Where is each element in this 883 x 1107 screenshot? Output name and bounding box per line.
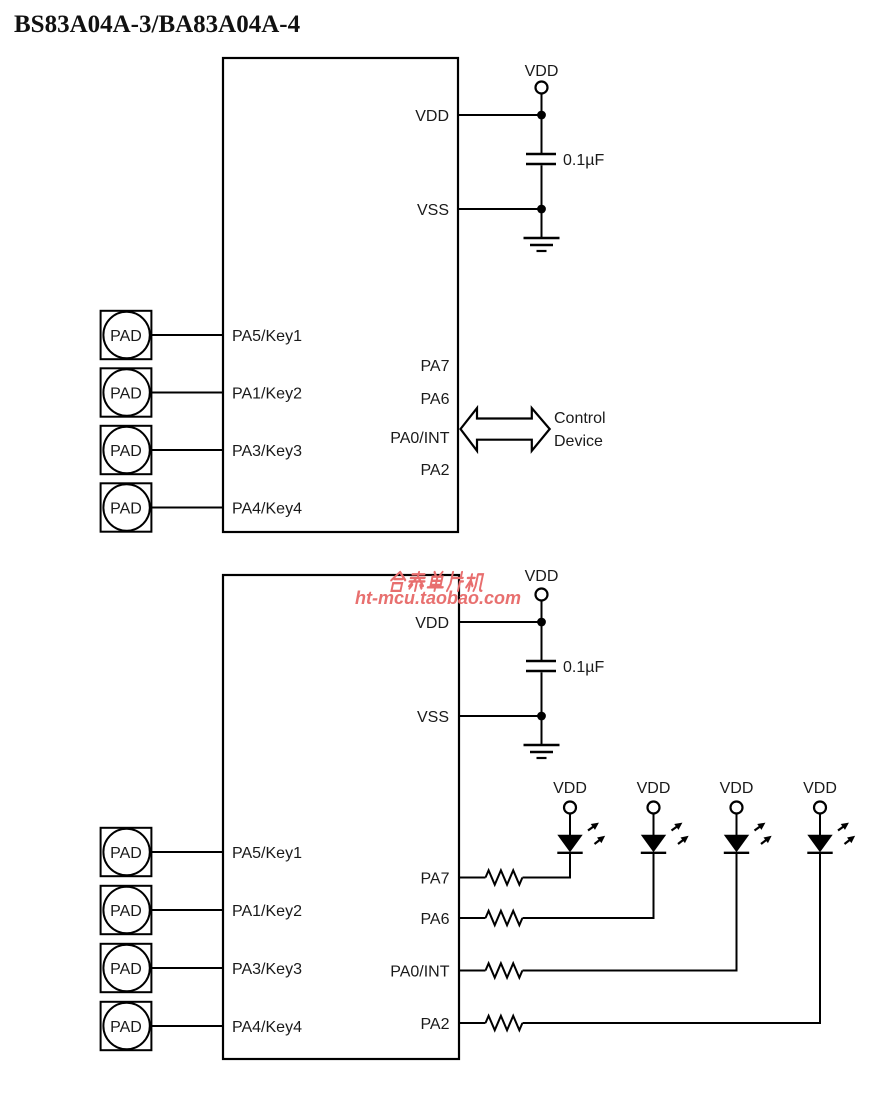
svg-text:PA5/Key1: PA5/Key1 xyxy=(232,845,302,862)
svg-text:VDD: VDD xyxy=(415,615,449,632)
svg-text:PAD: PAD xyxy=(110,961,142,978)
svg-text:PA3/Key3: PA3/Key3 xyxy=(232,443,302,460)
svg-text:PA2: PA2 xyxy=(420,1016,449,1033)
svg-text:PA7: PA7 xyxy=(420,870,449,887)
svg-text:VDD: VDD xyxy=(525,63,559,80)
svg-text:0.1µF: 0.1µF xyxy=(563,659,604,676)
svg-text:VDD: VDD xyxy=(803,780,837,797)
svg-text:PAD: PAD xyxy=(110,1019,142,1036)
svg-text:PA4/Key4: PA4/Key4 xyxy=(232,500,302,517)
svg-text:VDD: VDD xyxy=(553,780,587,797)
svg-text:VDD: VDD xyxy=(720,780,754,797)
svg-text:PA3/Key3: PA3/Key3 xyxy=(232,961,302,978)
svg-text:PA7: PA7 xyxy=(420,358,449,375)
svg-text:VDD: VDD xyxy=(637,780,671,797)
svg-text:Device: Device xyxy=(554,433,603,450)
svg-text:PAD: PAD xyxy=(110,845,142,862)
svg-text:PAD: PAD xyxy=(110,903,142,920)
svg-text:PA4/Key4: PA4/Key4 xyxy=(232,1019,302,1036)
svg-text:PA6: PA6 xyxy=(420,911,449,928)
svg-text:PAD: PAD xyxy=(110,385,142,402)
svg-text:PA2: PA2 xyxy=(420,462,449,479)
svg-text:PAD: PAD xyxy=(110,500,142,517)
svg-text:PA0/INT: PA0/INT xyxy=(390,430,450,447)
svg-text:PA0/INT: PA0/INT xyxy=(390,963,450,980)
svg-text:PA1/Key2: PA1/Key2 xyxy=(232,903,302,920)
svg-text:PA5/Key1: PA5/Key1 xyxy=(232,328,302,345)
svg-text:0.1µF: 0.1µF xyxy=(563,152,604,169)
svg-text:PAD: PAD xyxy=(110,328,142,345)
svg-text:VSS: VSS xyxy=(417,202,449,219)
svg-text:PAD: PAD xyxy=(110,443,142,460)
svg-text:PA1/Key2: PA1/Key2 xyxy=(232,385,302,402)
svg-text:VSS: VSS xyxy=(417,709,449,726)
svg-text:VDD: VDD xyxy=(415,108,449,125)
svg-text:PA6: PA6 xyxy=(420,391,449,408)
svg-text:Control: Control xyxy=(554,410,606,427)
svg-text:VDD: VDD xyxy=(525,568,559,585)
